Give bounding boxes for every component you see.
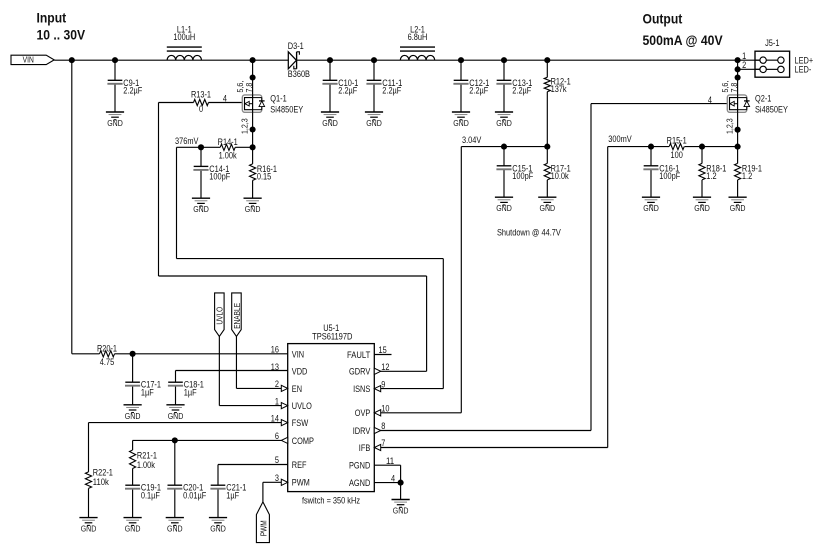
svg-text:376mV: 376mV [175, 136, 199, 146]
svg-text:2.2µF: 2.2µF [123, 86, 143, 96]
svg-text:Output: Output [643, 12, 683, 27]
svg-text:R20-1: R20-1 [97, 343, 117, 353]
svg-text:6: 6 [275, 431, 279, 441]
svg-text:GND: GND [322, 119, 338, 128]
svg-text:11: 11 [386, 456, 394, 466]
svg-text:10.0k: 10.0k [551, 171, 570, 181]
svg-text:GND: GND [453, 119, 469, 128]
svg-text:fswitch = 350 kHz: fswitch = 350 kHz [302, 496, 360, 506]
svg-text:0: 0 [199, 104, 203, 114]
svg-text:OVP: OVP [355, 408, 371, 418]
svg-text:2: 2 [275, 379, 279, 389]
svg-text:GND: GND [193, 205, 209, 214]
svg-text:PWM: PWM [292, 478, 310, 488]
svg-text:1.2: 1.2 [706, 171, 716, 181]
svg-text:FAULT: FAULT [347, 350, 371, 360]
svg-text:1,2,3: 1,2,3 [725, 118, 735, 134]
svg-text:VIN: VIN [23, 56, 34, 65]
svg-text:0.1µF: 0.1µF [141, 490, 161, 500]
svg-text:100uH: 100uH [173, 32, 195, 42]
svg-text:COMP: COMP [292, 436, 314, 446]
svg-text:137k: 137k [551, 84, 568, 94]
svg-text:110k: 110k [93, 477, 110, 487]
svg-text:4: 4 [708, 95, 712, 105]
svg-text:1µF: 1µF [184, 387, 197, 397]
svg-text:12: 12 [381, 362, 389, 372]
svg-text:ISNS: ISNS [353, 384, 370, 394]
svg-text:GND: GND [210, 525, 226, 534]
svg-text:9: 9 [381, 379, 385, 389]
svg-text:2.2µF: 2.2µF [512, 86, 532, 96]
svg-text:10 .. 30V: 10 .. 30V [37, 28, 86, 43]
svg-text:GND: GND [730, 204, 746, 213]
svg-text:6.8uH: 6.8uH [408, 32, 428, 42]
svg-text:TPS61197D: TPS61197D [312, 332, 352, 342]
svg-text:IFB: IFB [359, 443, 371, 453]
svg-text:14: 14 [271, 413, 279, 423]
svg-text:GND: GND [496, 204, 512, 213]
svg-text:Si4850EY: Si4850EY [755, 104, 788, 114]
svg-text:13: 13 [271, 362, 279, 372]
svg-text:2: 2 [742, 60, 746, 70]
svg-text:Q1-1: Q1-1 [270, 94, 286, 104]
svg-text:REF: REF [292, 460, 307, 470]
svg-text:FSW: FSW [292, 418, 309, 428]
svg-text:GND: GND [167, 525, 183, 534]
svg-text:Si4850EY: Si4850EY [270, 104, 303, 114]
svg-text:100pF: 100pF [659, 171, 681, 181]
svg-text:UVLO: UVLO [215, 307, 224, 325]
svg-text:7,8: 7,8 [729, 82, 739, 92]
svg-text:VIN: VIN [292, 349, 304, 359]
svg-text:2.2µF: 2.2µF [338, 86, 358, 96]
svg-text:1.00k: 1.00k [137, 460, 156, 470]
svg-text:GND: GND [245, 205, 261, 214]
svg-text:ENABLE: ENABLE [233, 303, 242, 329]
svg-text:4.75: 4.75 [100, 357, 114, 367]
svg-text:GND: GND [107, 119, 123, 128]
svg-text:1,2,3: 1,2,3 [240, 118, 250, 134]
svg-text:GND: GND [125, 412, 141, 421]
svg-text:0.15: 0.15 [257, 172, 271, 182]
svg-text:1.00k: 1.00k [219, 151, 238, 161]
svg-text:B360B: B360B [288, 69, 310, 79]
svg-text:AGND: AGND [349, 478, 371, 488]
svg-text:GND: GND [496, 119, 512, 128]
svg-text:GND: GND [366, 119, 382, 128]
svg-text:LED-: LED- [795, 65, 812, 75]
svg-text:1: 1 [275, 396, 279, 406]
svg-text:Shutdown @ 44.7V: Shutdown @ 44.7V [497, 227, 561, 237]
svg-text:PGND: PGND [349, 461, 371, 471]
svg-text:1µF: 1µF [226, 490, 239, 500]
svg-text:1.2: 1.2 [742, 171, 752, 181]
svg-text:7,8: 7,8 [244, 82, 254, 92]
svg-text:8: 8 [381, 421, 385, 431]
svg-text:16: 16 [271, 345, 279, 355]
svg-text:GND: GND [168, 412, 184, 421]
svg-text:7: 7 [381, 438, 385, 448]
svg-text:4: 4 [223, 93, 227, 103]
svg-text:VDD: VDD [292, 367, 308, 377]
svg-text:R15-1: R15-1 [667, 135, 687, 145]
svg-text:EN: EN [292, 384, 302, 394]
svg-text:GND: GND [81, 525, 97, 534]
svg-text:GND: GND [694, 204, 710, 213]
svg-text:2.2µF: 2.2µF [469, 86, 489, 96]
svg-text:15: 15 [379, 345, 387, 355]
svg-text:10: 10 [381, 404, 389, 414]
svg-text:R21-1: R21-1 [137, 450, 157, 460]
svg-text:100: 100 [671, 150, 683, 160]
svg-text:5: 5 [275, 455, 279, 465]
svg-text:Q2-1: Q2-1 [755, 94, 771, 104]
svg-text:100pF: 100pF [512, 171, 534, 181]
svg-text:100pF: 100pF [209, 172, 231, 182]
svg-text:GND: GND [540, 204, 556, 213]
svg-text:J5-1: J5-1 [765, 38, 779, 48]
svg-text:500mA @ 40V: 500mA @ 40V [643, 33, 723, 48]
svg-text:0.01µF: 0.01µF [183, 490, 207, 500]
svg-text:2.2µF: 2.2µF [382, 86, 402, 96]
svg-text:R13-1: R13-1 [191, 90, 211, 100]
svg-text:GDRV: GDRV [349, 367, 371, 377]
svg-text:GND: GND [125, 525, 141, 534]
svg-text:300mV: 300mV [608, 134, 632, 144]
svg-text:R14-1: R14-1 [218, 137, 238, 147]
svg-text:D3-1: D3-1 [288, 41, 304, 51]
svg-text:R22-1: R22-1 [93, 468, 113, 478]
svg-text:UVLO: UVLO [292, 401, 312, 411]
svg-text:3: 3 [275, 473, 279, 483]
svg-text:IDRV: IDRV [353, 426, 371, 436]
svg-text:4: 4 [391, 473, 395, 483]
svg-text:GND: GND [393, 507, 409, 516]
svg-text:1µF: 1µF [141, 387, 154, 397]
svg-text:GND: GND [643, 204, 659, 213]
svg-text:3.04V: 3.04V [462, 135, 481, 145]
svg-text:Input: Input [37, 11, 67, 26]
svg-text:PWM: PWM [259, 520, 268, 536]
